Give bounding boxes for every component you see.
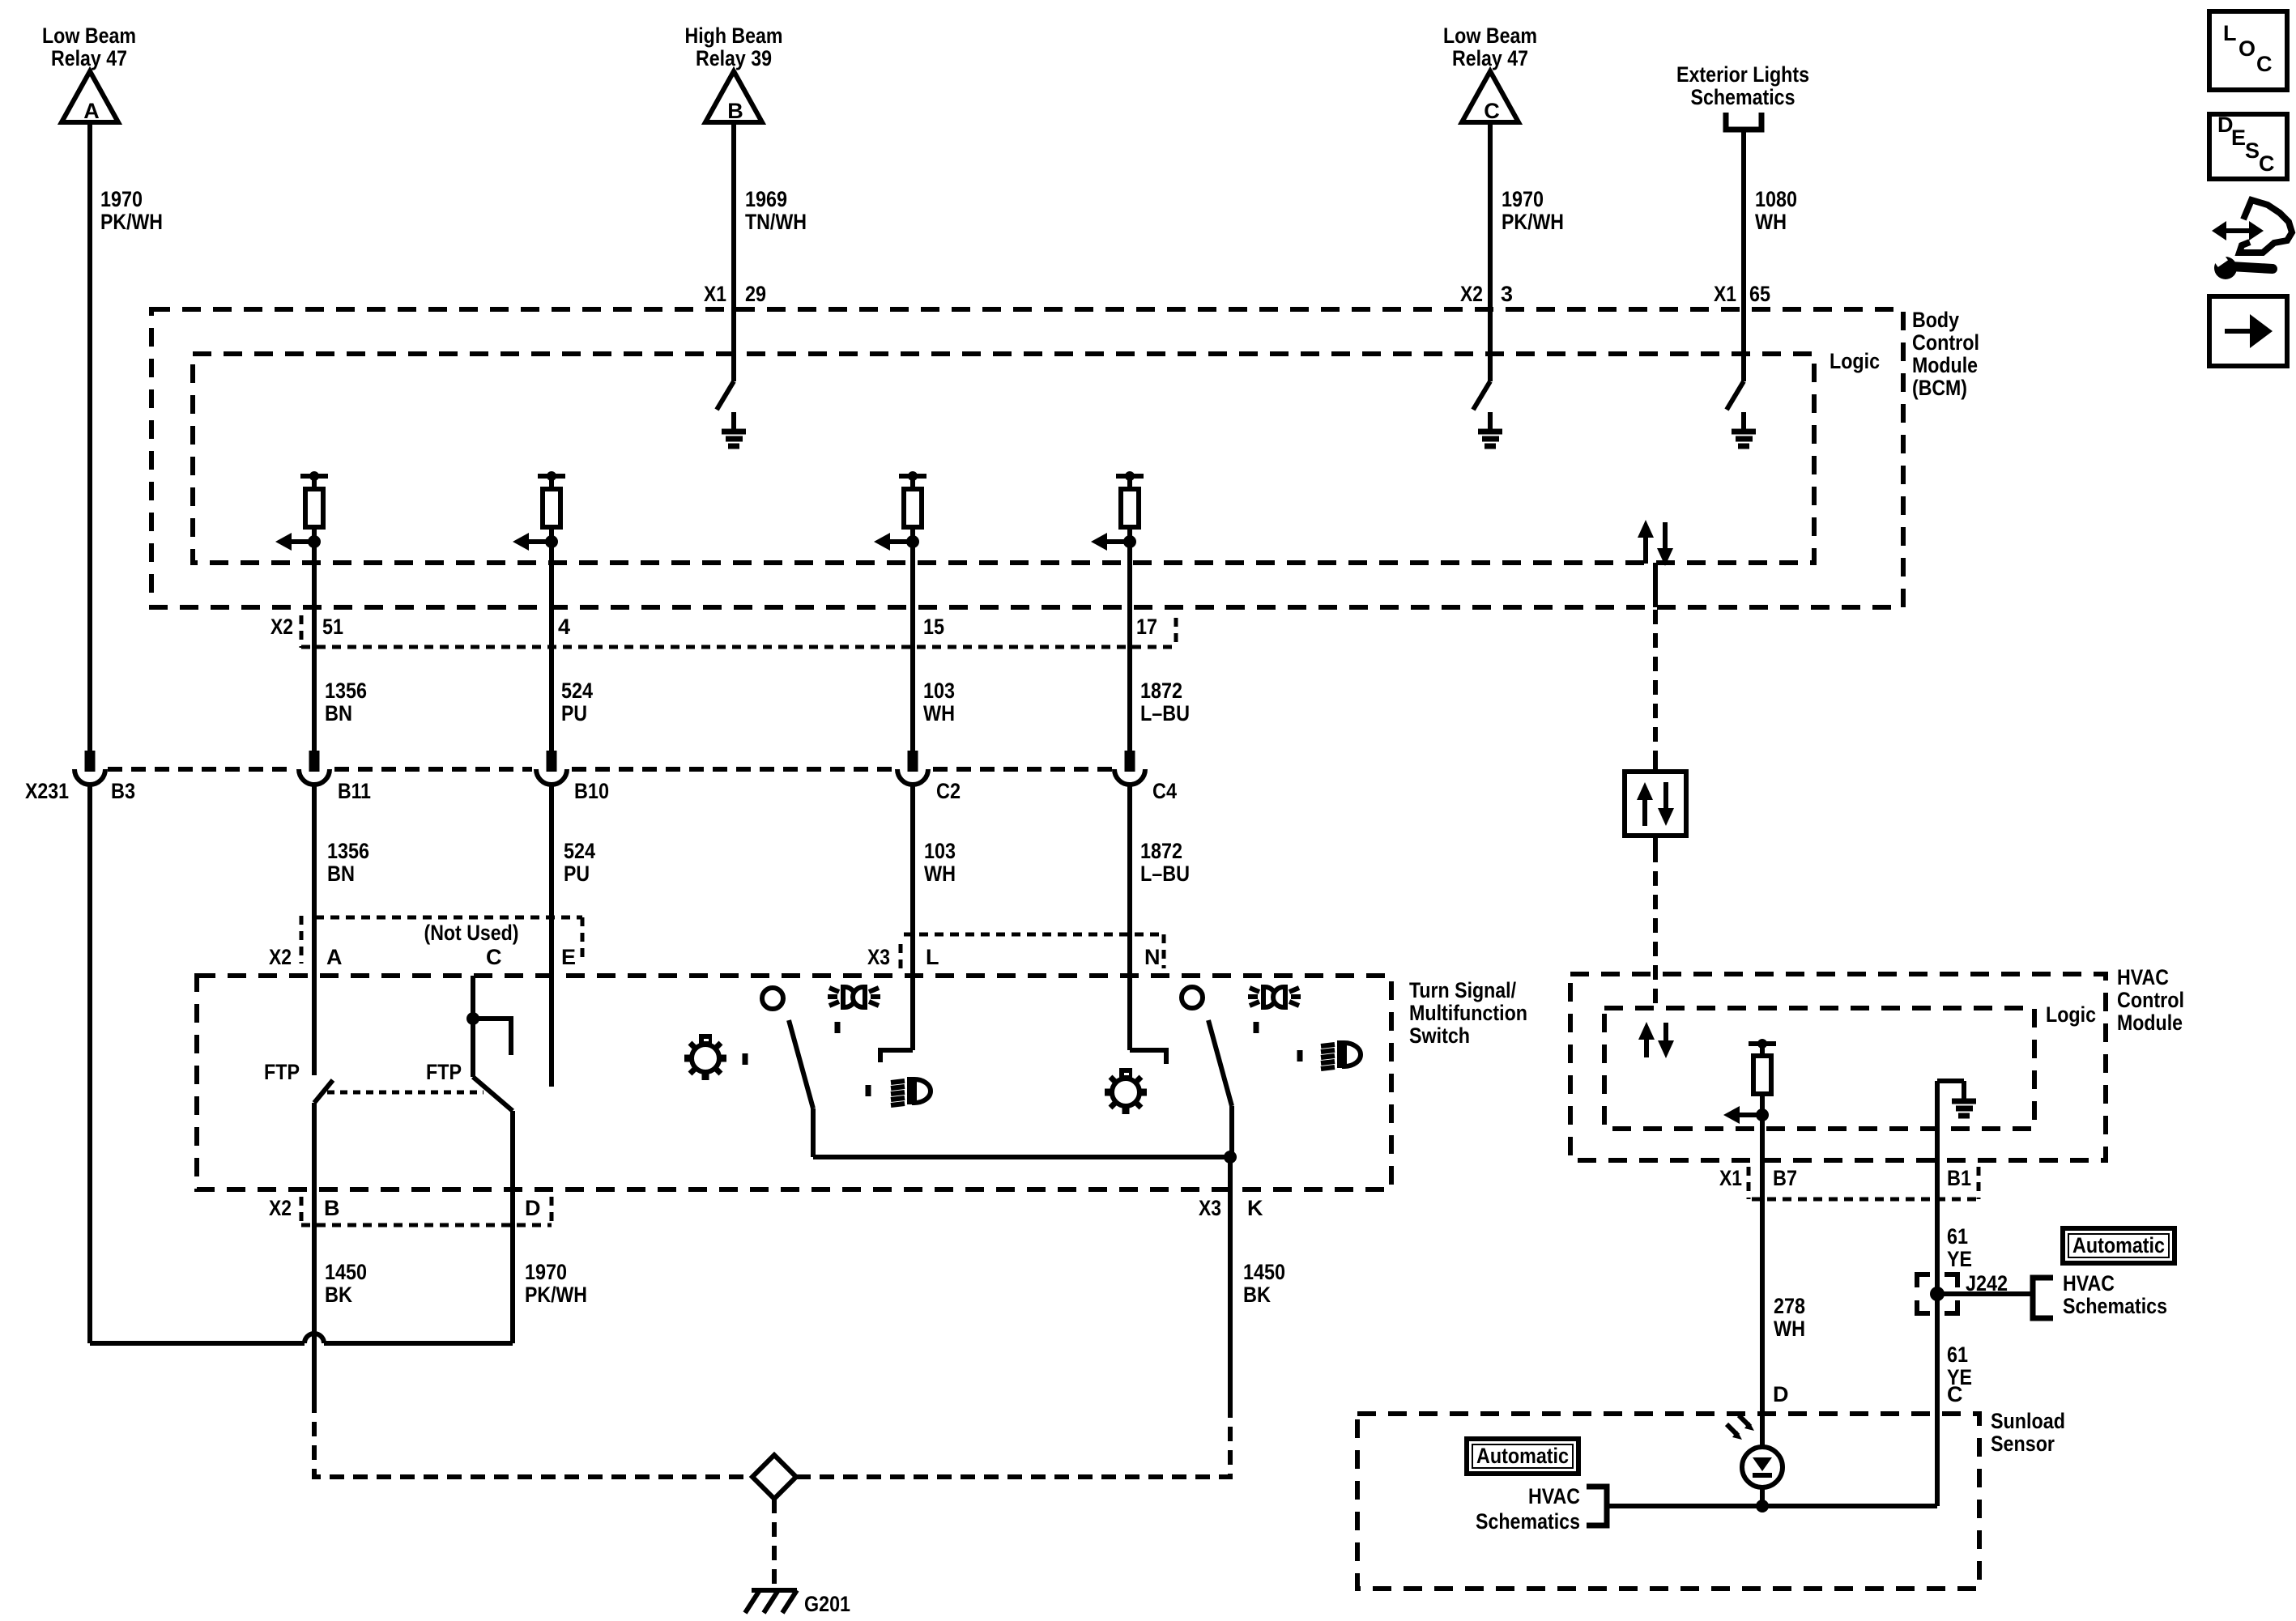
wire label 103 WH (upper) bbox=[923, 679, 955, 725]
svg-text:K: K bbox=[1247, 1196, 1263, 1220]
svg-text:WH: WH bbox=[1755, 210, 1787, 234]
svg-text:1970: 1970 bbox=[1502, 187, 1544, 211]
svg-text:D: D bbox=[525, 1196, 541, 1220]
svg-text:X2: X2 bbox=[269, 945, 292, 969]
svg-text:(Not Used): (Not Used) bbox=[424, 921, 519, 945]
connector X231 terminal B10 bbox=[536, 751, 567, 1087]
svg-text:PK/WH: PK/WH bbox=[100, 210, 163, 234]
svg-text:L: L bbox=[926, 945, 939, 969]
ground (BCM internal, X1 65) bbox=[1732, 412, 1756, 446]
svg-text:X2: X2 bbox=[1460, 282, 1483, 306]
svg-text:278: 278 bbox=[1774, 1294, 1805, 1318]
svg-text:PU: PU bbox=[564, 862, 590, 886]
svg-text:YE: YE bbox=[1947, 1247, 1972, 1271]
wire 61 YE (B1/C vertical) bbox=[1935, 1160, 1940, 1506]
wire from J242 to HVAC Schematics bracket bbox=[1937, 1278, 2053, 1318]
BCM output driver, pin X2 15 bbox=[874, 471, 926, 751]
connector X3 pin letters L N bbox=[867, 934, 1164, 969]
internal switch to ground (pin X1 65) bbox=[1727, 309, 1744, 410]
switch blade (right half) bbox=[1208, 1020, 1232, 1157]
svg-text:Body: Body bbox=[1912, 308, 1959, 332]
svg-text:4: 4 bbox=[558, 615, 570, 639]
svg-text:B3: B3 bbox=[111, 779, 135, 803]
wire label 1080 WH bbox=[1755, 187, 1797, 234]
svg-text:B11: B11 bbox=[338, 779, 371, 803]
svg-text:E: E bbox=[2231, 126, 2246, 150]
park lamp icon (left) bbox=[828, 987, 880, 1007]
svg-text:Schematics: Schematics bbox=[1691, 85, 1795, 109]
svg-text:BK: BK bbox=[325, 1283, 352, 1307]
wire label 61 YE (lower) bbox=[1947, 1342, 1972, 1389]
svg-text:High Beam: High Beam bbox=[685, 23, 783, 48]
svg-text:1969: 1969 bbox=[745, 187, 787, 211]
svg-text:1450: 1450 bbox=[325, 1260, 367, 1284]
wire label 1450 BK (right) bbox=[1243, 1260, 1285, 1307]
wire label 1872 L-BU (upper) bbox=[1140, 679, 1190, 725]
label HVAC Schematics (right) bbox=[2063, 1271, 2167, 1318]
svg-text:S: S bbox=[2245, 138, 2260, 163]
ground (BCM internal, B) bbox=[722, 412, 746, 446]
svg-text:FTP: FTP bbox=[426, 1060, 462, 1084]
photodiode (sunload sensor element) bbox=[1727, 1415, 1783, 1487]
icon forward arrow box bbox=[2209, 296, 2287, 366]
svg-text:Logic: Logic bbox=[1830, 349, 1880, 373]
label Sunload Sensor bbox=[1991, 1409, 2065, 1456]
svg-text:Automatic: Automatic bbox=[1476, 1444, 1569, 1468]
svg-text:WH: WH bbox=[1774, 1317, 1805, 1341]
HVAC Control Module outer dashed box bbox=[1570, 974, 2106, 1160]
svg-text:1450: 1450 bbox=[1243, 1260, 1285, 1284]
label HVAC Control Module bbox=[2117, 965, 2184, 1035]
wire label 1872 L-BU (lower) bbox=[1140, 839, 1190, 886]
power feed triangle A (Low Beam Relay 47) bbox=[42, 23, 136, 123]
BCM bidirectional data port arrows bbox=[1638, 520, 1673, 607]
FTP switch (right blade, pin C to pin D) bbox=[426, 976, 513, 1343]
svg-text:61: 61 bbox=[1947, 1224, 1968, 1249]
svg-text:C4: C4 bbox=[1152, 779, 1177, 803]
svg-text:PK/WH: PK/WH bbox=[525, 1283, 587, 1307]
wire label 524 PU (upper) bbox=[561, 679, 593, 725]
connector X3 pin K labels bbox=[1199, 1196, 1263, 1220]
splice diamond S (1450 BK) bbox=[752, 1455, 796, 1499]
svg-text:Control: Control bbox=[2117, 988, 2184, 1012]
BCM output driver, pin X2 17 bbox=[1091, 471, 1144, 751]
svg-text:103: 103 bbox=[924, 839, 956, 863]
svg-text:X2: X2 bbox=[269, 1196, 292, 1220]
HVAC bidirectional data arrows bbox=[1638, 1022, 1674, 1058]
wire 1080 WH vertical bbox=[1741, 130, 1746, 381]
svg-text:524: 524 bbox=[564, 839, 595, 863]
contact circle (left) bbox=[762, 988, 783, 1009]
wire label 1970 PK/WH (A) bbox=[100, 187, 163, 234]
boxed bidirectional arrows (serial data link) bbox=[1625, 759, 1686, 848]
BCM Logic inner dashed box bbox=[193, 354, 1814, 563]
in-line connector X231 dotted harness line bbox=[108, 767, 1112, 772]
svg-text:B1: B1 bbox=[1947, 1166, 1971, 1190]
svg-text:1872: 1872 bbox=[1140, 839, 1182, 863]
svg-text:Schematics: Schematics bbox=[2063, 1294, 2167, 1318]
BCM output driver, pin X2 4 bbox=[513, 471, 565, 751]
svg-text:FTP: FTP bbox=[264, 1060, 300, 1084]
power feed triangle B (High Beam Relay 39) bbox=[685, 23, 783, 123]
svg-text:Control: Control bbox=[1912, 330, 1979, 355]
power feed triangle C (Low Beam Relay 47) bbox=[1443, 23, 1537, 123]
connector X231 terminal C2 bbox=[897, 751, 928, 1050]
svg-text:BN: BN bbox=[325, 701, 352, 725]
internal switch to ground (pin X2 3) bbox=[1473, 309, 1490, 410]
connector X1 pin labels B7 B1 bbox=[1719, 1166, 1979, 1199]
svg-text:Automatic: Automatic bbox=[2072, 1233, 2165, 1257]
svg-text:17: 17 bbox=[1136, 615, 1157, 639]
wire label 1970 PK/WH (C) bbox=[1502, 187, 1564, 234]
headlamp switch rotary knob (right) bbox=[1105, 1068, 1147, 1114]
internal switch to ground (pin X1 29) bbox=[717, 309, 734, 410]
wire label 1356 BN (upper) bbox=[325, 679, 367, 725]
connector X231 labels bbox=[25, 779, 1177, 803]
connector X2 pin labels 51/4/15/17 bbox=[270, 615, 1157, 648]
wire label 1450 BK (left) bbox=[325, 1260, 367, 1307]
svg-text:(BCM): (BCM) bbox=[1912, 376, 1967, 400]
svg-text:C: C bbox=[486, 945, 502, 969]
fixed contact pin N bbox=[1130, 1050, 1166, 1064]
svg-text:Multifunction: Multifunction bbox=[1409, 1001, 1527, 1025]
contact circle (right) bbox=[1182, 987, 1203, 1008]
pin label X1 65 bbox=[1714, 282, 1770, 306]
svg-text:G201: G201 bbox=[804, 1592, 850, 1616]
svg-text:X1: X1 bbox=[1714, 282, 1736, 306]
wire A vertical (1970 PK/WH) bbox=[87, 122, 92, 751]
ground G201 bbox=[745, 1590, 850, 1616]
HVAC Logic inner dashed box bbox=[1604, 1008, 2034, 1129]
Sunload Sensor dashed box bbox=[1357, 1414, 1979, 1589]
label Body Control Module (BCM) bbox=[1912, 308, 1979, 400]
svg-text:A: A bbox=[326, 945, 343, 969]
svg-text:E: E bbox=[561, 945, 576, 969]
svg-text:B: B bbox=[324, 1196, 340, 1220]
contact tick (left, off position) bbox=[743, 1053, 748, 1065]
svg-text:1356: 1356 bbox=[325, 679, 367, 703]
wire from switch blades to pin K bbox=[813, 1151, 1237, 1417]
svg-text:103: 103 bbox=[923, 679, 955, 703]
splice J242 with dashed locator corners bbox=[1917, 1271, 2008, 1313]
svg-text:1970: 1970 bbox=[525, 1260, 567, 1284]
svg-text:Logic: Logic bbox=[2046, 1002, 2096, 1027]
svg-text:BN: BN bbox=[327, 862, 355, 886]
connector X2 pin letters B D bbox=[269, 1196, 552, 1227]
ganged switch linkage (dashed) bbox=[327, 1091, 483, 1095]
icon harness routing (double arrow with wrench) bbox=[2212, 200, 2292, 279]
svg-text:Sensor: Sensor bbox=[1991, 1432, 2055, 1456]
svg-text:X3: X3 bbox=[1199, 1196, 1221, 1220]
svg-text:Low Beam: Low Beam bbox=[1443, 23, 1537, 48]
contact tick (right, park position) bbox=[1254, 1022, 1259, 1033]
headlamp icon (left) bbox=[891, 1077, 931, 1105]
svg-text:29: 29 bbox=[745, 282, 766, 306]
svg-text:N: N bbox=[1144, 945, 1161, 969]
connector X231 terminal B3 bbox=[75, 751, 105, 1343]
HVAC output driver, pin X1 B7 bbox=[1723, 1039, 1776, 1447]
svg-text:C: C bbox=[1484, 99, 1500, 123]
HVAC internal ground (pin B1) bbox=[1937, 1081, 1976, 1160]
label Automatic (left tag) bbox=[1467, 1439, 1578, 1474]
connector X2 (Not Used) bracket bbox=[301, 916, 582, 964]
svg-text:1356: 1356 bbox=[327, 839, 369, 863]
wire label 1970 PK/WH (lower) bbox=[525, 1260, 587, 1307]
svg-text:B7: B7 bbox=[1773, 1166, 1797, 1190]
HVAC Schematics bracket (left) bbox=[1587, 1487, 1607, 1525]
svg-text:PU: PU bbox=[561, 701, 587, 725]
pin label X1 29 bbox=[704, 282, 766, 306]
svg-text:15: 15 bbox=[923, 615, 944, 639]
svg-text:O: O bbox=[2238, 36, 2256, 61]
svg-text:X2: X2 bbox=[270, 615, 293, 639]
contact tick (left, head position) bbox=[866, 1085, 871, 1096]
connector X2 dotted face line bbox=[301, 618, 1176, 647]
svg-text:C: C bbox=[2259, 151, 2275, 176]
svg-text:C2: C2 bbox=[936, 779, 961, 803]
switch blade (left half) bbox=[789, 1020, 813, 1157]
svg-text:1970: 1970 bbox=[100, 187, 143, 211]
wire label 1356 BN (lower) bbox=[327, 839, 369, 886]
dashed wire from splice down to G201 bbox=[772, 1499, 777, 1589]
svg-text:524: 524 bbox=[561, 679, 593, 703]
svg-text:WH: WH bbox=[923, 701, 955, 725]
svg-text:65: 65 bbox=[1749, 282, 1770, 306]
FTP switch (left blade, pin A to pin B) bbox=[264, 1060, 333, 1398]
svg-text:L–BU: L–BU bbox=[1140, 701, 1190, 725]
svg-text:PK/WH: PK/WH bbox=[1502, 210, 1564, 234]
wire label 278 WH bbox=[1774, 1294, 1805, 1341]
svg-text:L: L bbox=[2223, 21, 2237, 45]
wire label 103 WH (lower) bbox=[924, 839, 956, 886]
svg-text:C: C bbox=[1947, 1382, 1963, 1406]
icon LOC box bbox=[2209, 11, 2287, 90]
dashed data link wire BCM to HVAC bbox=[1653, 610, 1658, 1008]
svg-text:HVAC: HVAC bbox=[1528, 1484, 1580, 1508]
label HVAC Schematics (left) bbox=[1476, 1484, 1580, 1534]
Exterior Lights Schematics off-page connector bbox=[1676, 62, 1809, 130]
icon DESC box bbox=[2209, 113, 2287, 179]
contact tick (left, park position) bbox=[835, 1022, 841, 1033]
svg-text:Module: Module bbox=[1912, 353, 1978, 377]
svg-text:A: A bbox=[83, 99, 100, 123]
svg-text:BK: BK bbox=[1243, 1283, 1271, 1307]
headlamp switch rotary knob (left) bbox=[684, 1034, 726, 1080]
connector X231 terminal C4 bbox=[1114, 751, 1145, 1050]
pin label X2 3 bbox=[1460, 282, 1513, 306]
svg-text:61: 61 bbox=[1947, 1342, 1968, 1367]
ground (BCM internal, C) bbox=[1478, 412, 1502, 446]
svg-text:1872: 1872 bbox=[1140, 679, 1182, 703]
svg-text:WH: WH bbox=[924, 862, 956, 886]
dashed wire 1450 BK down from hop bbox=[314, 1398, 752, 1477]
svg-text:Module: Module bbox=[2117, 1010, 2183, 1035]
Turn Signal / Multifunction Switch dashed box bbox=[197, 976, 1391, 1189]
svg-text:Sunload: Sunload bbox=[1991, 1409, 2065, 1433]
svg-text:Turn Signal/: Turn Signal/ bbox=[1409, 978, 1516, 1002]
svg-text:51: 51 bbox=[322, 615, 343, 639]
svg-text:X1: X1 bbox=[704, 282, 726, 306]
label Automatic (right tag) bbox=[2063, 1228, 2175, 1263]
contact tick (right, head position) bbox=[1297, 1050, 1303, 1062]
svg-text:Schematics: Schematics bbox=[1476, 1509, 1580, 1534]
svg-text:X1: X1 bbox=[1719, 1166, 1742, 1190]
svg-text:Exterior Lights: Exterior Lights bbox=[1676, 62, 1809, 87]
fixed contact pin L bbox=[880, 1050, 913, 1062]
svg-text:Relay 47: Relay 47 bbox=[51, 46, 127, 70]
svg-text:B: B bbox=[727, 99, 743, 123]
svg-text:L–BU: L–BU bbox=[1140, 862, 1190, 886]
wire from photodiode to pin C bbox=[1607, 1487, 1937, 1513]
wire C vertical (1970 PK/WH) bbox=[1488, 122, 1493, 381]
svg-text:1080: 1080 bbox=[1755, 187, 1797, 211]
wire label 524 PU (lower) bbox=[564, 839, 595, 886]
connector X231 terminal B11 bbox=[299, 751, 330, 1075]
svg-text:C: C bbox=[2256, 52, 2273, 76]
svg-text:3: 3 bbox=[1501, 282, 1513, 306]
svg-text:Switch: Switch bbox=[1409, 1023, 1470, 1048]
svg-text:TN/WH: TN/WH bbox=[745, 210, 807, 234]
BCM output driver, pin X2 51 bbox=[275, 471, 328, 751]
dashed wire from splice to pin K drop bbox=[796, 1417, 1230, 1477]
connector X2 pin letters A C E bbox=[269, 945, 576, 969]
svg-text:HVAC: HVAC bbox=[2117, 965, 2169, 989]
svg-text:Low Beam: Low Beam bbox=[42, 23, 136, 48]
svg-text:B10: B10 bbox=[574, 779, 609, 803]
headlamp icon (right) bbox=[1321, 1040, 1361, 1069]
wire B vertical (1969 TN/WH) bbox=[731, 122, 736, 381]
park lamp icon (right) bbox=[1248, 987, 1301, 1007]
wire label 61 YE (upper) bbox=[1947, 1224, 1972, 1271]
svg-text:X3: X3 bbox=[867, 945, 890, 969]
svg-text:X231: X231 bbox=[25, 779, 69, 803]
Body Control Module (BCM) outer dashed box bbox=[151, 309, 1903, 607]
svg-text:HVAC: HVAC bbox=[2063, 1271, 2115, 1296]
svg-text:D: D bbox=[1773, 1382, 1789, 1406]
label Turn Signal / Multifunction Switch bbox=[1409, 978, 1527, 1048]
wire A horizontal run with hop over 1450 BK bbox=[90, 1334, 513, 1343]
wire label 1969 TN/WH bbox=[745, 187, 807, 234]
